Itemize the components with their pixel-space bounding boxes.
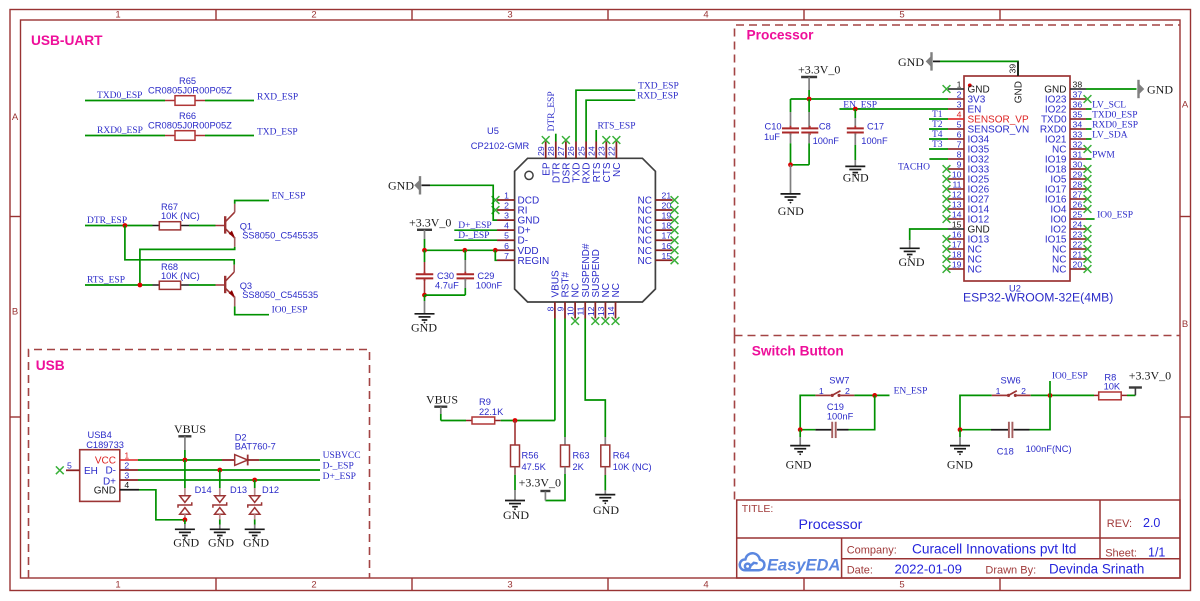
pin 10 U2 left IO25 xyxy=(948,178,964,180)
svg-text:30: 30 xyxy=(1073,160,1083,170)
svg-text:26: 26 xyxy=(566,146,576,156)
wire IO0 label stub xyxy=(1049,381,1051,395)
svg-text:1: 1 xyxy=(115,580,120,591)
svg-text:LV_SDA: LV_SDA xyxy=(1092,131,1128,141)
pin 22 U5 top xyxy=(615,142,617,159)
svg-text:NC: NC xyxy=(611,283,622,297)
svg-text:SW6: SW6 xyxy=(1001,375,1021,385)
svg-text:C17: C17 xyxy=(867,122,884,132)
pin 30 U2 right IO18 xyxy=(1070,168,1086,170)
svg-text:27: 27 xyxy=(1073,190,1083,200)
svg-text:1: 1 xyxy=(504,191,509,201)
svg-text:R9: R9 xyxy=(479,397,491,407)
svg-text:RXD0_ESP: RXD0_ESP xyxy=(1092,121,1138,131)
svg-text:CR0805J0R00P05Z: CR0805J0R00P05Z xyxy=(148,120,232,131)
pin 21 U5 right xyxy=(655,199,672,201)
pin 19 U2 left NC xyxy=(948,268,964,270)
svg-text:39: 39 xyxy=(1008,64,1018,74)
pin 4 U2 left SENSOR_VP xyxy=(948,118,964,120)
svg-text:IO0_ESP: IO0_ESP xyxy=(1052,371,1088,381)
svg-text:C8: C8 xyxy=(819,122,831,132)
svg-text:100nF: 100nF xyxy=(476,281,503,291)
svg-text:29: 29 xyxy=(536,146,546,156)
svg-text:TITLE:: TITLE: xyxy=(742,503,774,515)
svg-text:DTR_ESP: DTR_ESP xyxy=(87,216,127,226)
wire xyxy=(259,459,320,461)
pin 3 stub xyxy=(120,479,138,481)
svg-text:14: 14 xyxy=(606,306,616,316)
svg-text:NC: NC xyxy=(638,256,652,267)
svg-text:USB4: USB4 xyxy=(88,430,112,440)
pin 29 U5 top xyxy=(545,142,547,159)
svg-text:Date:: Date: xyxy=(847,565,873,577)
pin 37 U2 right IO23 xyxy=(1070,98,1086,100)
wire xyxy=(1086,218,1095,220)
pin 11 U5 bottom xyxy=(584,302,586,319)
pin 13 U2 left IO14 xyxy=(948,208,964,210)
wire RST# to R63 xyxy=(564,319,566,446)
svg-text:C189733: C189733 xyxy=(86,440,124,450)
svg-text:100nF(NC): 100nF(NC) xyxy=(1026,444,1072,454)
junction xyxy=(872,393,877,398)
svg-text:LV_SCL: LV_SCL xyxy=(1092,101,1126,111)
svg-text:17: 17 xyxy=(662,231,672,241)
svg-text:2: 2 xyxy=(124,460,129,470)
svg-text:4: 4 xyxy=(124,480,129,490)
svg-text:15: 15 xyxy=(952,220,962,230)
svg-text:19: 19 xyxy=(662,211,672,221)
pin 33 U2 right IO21 xyxy=(1070,138,1086,140)
wire Q3 emitter IO0_ESP xyxy=(235,306,269,314)
svg-text:18: 18 xyxy=(952,250,962,260)
svg-text:RTS_ESP: RTS_ESP xyxy=(598,122,636,132)
svg-text:DTR_ESP: DTR_ESP xyxy=(547,91,557,131)
svg-text:34: 34 xyxy=(1073,120,1083,130)
svg-text:24: 24 xyxy=(1073,220,1083,230)
svg-text:1/1: 1/1 xyxy=(1148,546,1165,560)
svg-text:6: 6 xyxy=(504,241,509,251)
wire xyxy=(441,420,466,422)
svg-text:2: 2 xyxy=(957,90,962,100)
resistor R63 xyxy=(561,445,570,467)
svg-text:GND: GND xyxy=(411,321,437,335)
chip U2 ESP32-WROOM-32E body xyxy=(964,76,1070,281)
svg-text:C19: C19 xyxy=(827,402,844,412)
svg-text:10: 10 xyxy=(952,170,962,180)
svg-text:USB-UART: USB-UART xyxy=(31,33,103,48)
wire xyxy=(1086,108,1092,110)
power flag +3.3V_0 at R8 xyxy=(1129,388,1142,396)
svg-text:GND: GND xyxy=(899,255,925,269)
pin 18 U2 left NC xyxy=(948,258,964,260)
svg-text:RTS_ESP: RTS_ESP xyxy=(87,276,125,286)
no-connect pin1 xyxy=(492,196,500,204)
svg-text:36: 36 xyxy=(1073,100,1083,110)
svg-text:3: 3 xyxy=(124,470,129,480)
pin 22 U2 right NC xyxy=(1070,248,1086,250)
svg-text:4: 4 xyxy=(703,580,708,591)
svg-text:16: 16 xyxy=(662,241,672,251)
svg-text:35: 35 xyxy=(1073,110,1083,120)
svg-text:1: 1 xyxy=(124,450,129,460)
pin 34 U2 right RXD0 xyxy=(1070,128,1086,130)
svg-text:+3.3V_0: +3.3V_0 xyxy=(409,216,451,230)
wire RTS stub xyxy=(595,130,597,142)
svg-text:Switch Button: Switch Button xyxy=(752,344,844,359)
wire xyxy=(929,148,948,150)
op-amp U5 body CP2102-GMR xyxy=(515,158,656,302)
svg-text:1: 1 xyxy=(819,386,824,396)
svg-text:23: 23 xyxy=(597,146,607,156)
capacitor C19 xyxy=(815,422,848,438)
svg-text:100nF: 100nF xyxy=(861,136,888,146)
pin 27 U5 top xyxy=(565,142,567,159)
svg-text:14: 14 xyxy=(952,210,962,220)
junction xyxy=(798,427,803,432)
capacitor C17 xyxy=(847,109,864,166)
wire SW7 right side xyxy=(849,395,875,429)
wire xyxy=(425,294,466,296)
svg-text:10K (NC): 10K (NC) xyxy=(161,271,200,281)
pin 11 U2 left IO26 xyxy=(948,188,964,190)
pin 39 U2 top stub xyxy=(1017,61,1019,76)
wire xyxy=(854,394,889,396)
wire xyxy=(929,118,948,120)
svg-text:16: 16 xyxy=(952,230,962,240)
no-connect pin29 xyxy=(542,136,550,144)
pin 20 U2 right NC xyxy=(1070,268,1086,270)
svg-text:11: 11 xyxy=(576,306,586,315)
svg-text:13: 13 xyxy=(596,306,606,316)
svg-text:21: 21 xyxy=(1073,250,1083,260)
svg-text:VBUS: VBUS xyxy=(174,422,206,436)
svg-text:GND: GND xyxy=(173,536,199,550)
svg-text:1: 1 xyxy=(957,80,962,90)
wire xyxy=(189,225,216,227)
svg-text:+3.3V_0: +3.3V_0 xyxy=(519,476,561,490)
EasyEDA logo xyxy=(740,553,765,570)
svg-text:GND: GND xyxy=(843,171,869,185)
resistor R67 xyxy=(153,222,190,230)
svg-text:VBUS: VBUS xyxy=(426,393,458,407)
ground flag GND pin38 xyxy=(1086,80,1144,98)
wire DTR label stub xyxy=(555,134,557,142)
pin 29 U2 right IO5 xyxy=(1070,178,1086,180)
svg-text:GND: GND xyxy=(243,536,269,550)
svg-text:GND: GND xyxy=(786,457,812,471)
capacitor C30 xyxy=(416,250,434,295)
junction xyxy=(183,517,188,522)
ground xyxy=(505,500,525,502)
ground xyxy=(415,295,435,323)
svg-text:26: 26 xyxy=(1073,200,1083,210)
svg-text:A: A xyxy=(1182,100,1189,111)
junction xyxy=(958,427,963,432)
wire D+ net xyxy=(138,479,320,481)
svg-text:25: 25 xyxy=(1073,210,1083,220)
ground xyxy=(790,430,810,455)
dashed box USB section xyxy=(29,350,370,579)
svg-text:TXD_ESP: TXD_ESP xyxy=(257,128,298,138)
svg-text:1: 1 xyxy=(115,10,120,21)
svg-text:R63: R63 xyxy=(573,451,590,461)
wire xyxy=(85,100,165,102)
no-connect bottom pin xyxy=(602,317,610,325)
wire REGIN xyxy=(495,250,497,260)
junction xyxy=(123,223,128,228)
svg-text:19: 19 xyxy=(952,260,962,270)
svg-text:Curacell Innovations pvt ltd: Curacell Innovations pvt ltd xyxy=(912,542,1076,557)
svg-text:C29: C29 xyxy=(477,271,494,281)
pin 27 U2 right IO16 xyxy=(1070,198,1086,200)
svg-text:D13: D13 xyxy=(230,485,247,495)
pin 19 U5 right xyxy=(655,219,672,221)
ground xyxy=(595,467,615,504)
wire xyxy=(1127,394,1135,396)
wire xyxy=(1086,118,1092,120)
svg-text:D12: D12 xyxy=(262,485,279,495)
wire xyxy=(454,239,497,241)
diode D14 xyxy=(178,460,192,520)
svg-text:28: 28 xyxy=(1073,180,1083,190)
capacitor C18 xyxy=(991,422,1030,438)
wire xyxy=(929,128,948,130)
svg-text:3: 3 xyxy=(504,211,509,221)
pin 8 U5 bottom xyxy=(554,302,556,319)
svg-text:1uF: 1uF xyxy=(764,132,780,142)
no-connect bottom pin xyxy=(591,317,599,325)
svg-text:GND: GND xyxy=(1013,81,1024,103)
pin 18 U5 right xyxy=(655,229,672,231)
pin 28 U5 top xyxy=(555,142,557,159)
junction xyxy=(513,418,518,423)
diode D13 xyxy=(213,470,227,529)
pin 4 stub xyxy=(120,489,139,491)
pin 14 U2 left IO12 xyxy=(948,218,964,220)
svg-text:GND: GND xyxy=(94,486,116,497)
svg-text:Drawn By:: Drawn By: xyxy=(985,565,1036,577)
resistor R68 xyxy=(153,281,190,289)
pin 14 U5 bottom xyxy=(615,302,617,319)
svg-text:USB: USB xyxy=(36,358,65,373)
junction xyxy=(462,248,467,253)
dashed box Switch Button section xyxy=(734,336,736,501)
svg-text:2: 2 xyxy=(845,386,850,396)
pin 2 U2 left 3V3 xyxy=(948,98,964,100)
transistor Q1 xyxy=(216,204,235,247)
resistor R8 xyxy=(1094,392,1127,400)
svg-text:SS8050_C545535: SS8050_C545535 xyxy=(242,230,318,240)
svg-text:9: 9 xyxy=(957,160,962,170)
svg-text:CR0805J0R00P05Z: CR0805J0R00P05Z xyxy=(148,85,232,96)
svg-text:12: 12 xyxy=(952,190,962,200)
svg-text:17: 17 xyxy=(952,240,962,250)
wire xyxy=(501,420,555,422)
svg-text:9: 9 xyxy=(556,306,566,311)
svg-text:6: 6 xyxy=(957,130,962,140)
wire xyxy=(205,135,254,137)
svg-text:NC: NC xyxy=(1052,265,1066,276)
svg-text:+3.3V_0: +3.3V_0 xyxy=(1129,369,1171,383)
ground xyxy=(210,528,230,530)
svg-text:4: 4 xyxy=(504,221,509,231)
svg-text:RXD_ESP: RXD_ESP xyxy=(637,92,678,102)
title block xyxy=(737,500,1180,578)
pin 1 U5 xyxy=(497,199,515,201)
resistor R9 xyxy=(466,417,501,424)
svg-text:EN_ESP: EN_ESP xyxy=(894,386,928,396)
wire IO32 xyxy=(929,158,948,160)
svg-text:5: 5 xyxy=(67,461,72,471)
pin 36 U2 right IO22 xyxy=(1070,108,1086,110)
svg-text:IO0_ESP: IO0_ESP xyxy=(1097,211,1133,221)
junction xyxy=(788,162,793,167)
svg-text:GND: GND xyxy=(208,536,234,550)
pin 26 U2 right IO4 xyxy=(1070,208,1086,210)
pin 38 U2 right GND xyxy=(1070,88,1086,90)
svg-text:37: 37 xyxy=(1073,90,1083,100)
svg-text:12: 12 xyxy=(586,306,596,316)
wire EN net xyxy=(840,108,949,110)
svg-text:100nF: 100nF xyxy=(827,412,854,422)
ground xyxy=(245,528,265,530)
svg-text:47.5K: 47.5K xyxy=(522,462,547,472)
pin 32 U2 right NC xyxy=(1070,148,1086,150)
svg-text:10: 10 xyxy=(566,306,576,316)
pin 7 U5 xyxy=(497,259,515,261)
ground xyxy=(781,165,801,204)
svg-text:D-: D- xyxy=(105,466,116,477)
pin 5 stub xyxy=(66,469,80,471)
wire xyxy=(791,164,810,166)
svg-text:4: 4 xyxy=(957,110,962,120)
resistor R66 xyxy=(165,131,205,141)
wire D- net xyxy=(138,469,320,471)
junction xyxy=(217,468,222,473)
svg-text:8: 8 xyxy=(957,150,962,160)
svg-text:Devinda Srinath: Devinda Srinath xyxy=(1049,562,1144,577)
junction xyxy=(422,248,427,253)
pin 9 U5 bottom xyxy=(564,302,566,319)
no-connect bottom pin xyxy=(571,317,579,325)
svg-text:C30: C30 xyxy=(437,271,454,281)
svg-text:20: 20 xyxy=(1073,260,1083,270)
no-connect pin22 xyxy=(613,136,621,144)
wire SW6 right side xyxy=(1030,395,1051,429)
pin 21 U2 right NC xyxy=(1070,258,1086,260)
diode D2 xyxy=(222,455,259,466)
wire R63 to +3.3V xyxy=(545,467,565,501)
svg-text:GND: GND xyxy=(898,55,924,69)
pin 25 U2 right IO0 xyxy=(1070,218,1086,220)
no-connect bottom pin xyxy=(612,317,620,325)
svg-text:2: 2 xyxy=(504,201,509,211)
wire GND to pin3 xyxy=(430,185,497,220)
wire xyxy=(1031,394,1094,396)
pin 17 U2 left NC xyxy=(948,248,964,250)
dashed box Processor section xyxy=(735,25,1181,336)
svg-text:22: 22 xyxy=(607,146,617,156)
svg-text:38: 38 xyxy=(1073,80,1083,90)
wire xyxy=(1086,128,1092,130)
svg-text:NC: NC xyxy=(968,265,982,276)
pin 26 U5 top xyxy=(575,142,577,159)
svg-text:C18: C18 xyxy=(997,446,1014,456)
pin 13 U5 bottom xyxy=(604,302,606,319)
wire xyxy=(189,284,216,286)
pin 31 U2 right IO19 xyxy=(1070,158,1086,160)
svg-text:R56: R56 xyxy=(522,451,539,461)
svg-text:20: 20 xyxy=(662,201,672,211)
pin 1 stub xyxy=(120,459,138,461)
svg-text:29: 29 xyxy=(1073,170,1083,180)
svg-text:31: 31 xyxy=(1073,150,1083,160)
svg-text:GND: GND xyxy=(593,503,619,517)
svg-text:RXD_ESP: RXD_ESP xyxy=(257,93,298,103)
svg-text:3: 3 xyxy=(507,10,512,21)
svg-text:10K: 10K xyxy=(1104,382,1121,392)
pin 35 U2 right TXD0 xyxy=(1070,118,1086,120)
pin 3 U2 left EN xyxy=(948,108,964,110)
wire GND to pin39 xyxy=(940,61,1018,76)
svg-text:3: 3 xyxy=(957,100,962,110)
junction xyxy=(183,458,188,463)
svg-text:2: 2 xyxy=(1021,386,1026,396)
pin 10 U5 bottom xyxy=(574,302,576,319)
resistor R65 xyxy=(165,96,205,106)
svg-text:GND: GND xyxy=(503,508,529,522)
pin 7 U2 left IO35 xyxy=(948,148,964,150)
svg-text:B: B xyxy=(1182,319,1188,330)
svg-text:18: 18 xyxy=(662,221,672,231)
svg-text:NC: NC xyxy=(612,163,623,177)
wire SUSPEND# to R64 xyxy=(585,319,605,446)
svg-text:7: 7 xyxy=(957,140,962,150)
svg-text:ESP32-WROOM-32E(4MB): ESP32-WROOM-32E(4MB) xyxy=(963,290,1113,304)
pin 12 U2 left IO27 xyxy=(948,198,964,200)
svg-text:+3.3V_0: +3.3V_0 xyxy=(798,63,840,77)
svg-text:28: 28 xyxy=(546,146,556,156)
wire SW6 loop xyxy=(960,395,992,429)
wire TXD net xyxy=(576,90,635,141)
svg-text:32: 32 xyxy=(1073,140,1083,150)
svg-text:PWM: PWM xyxy=(1092,151,1115,161)
svg-text:TXD_ESP: TXD_ESP xyxy=(638,82,679,92)
svg-text:D14: D14 xyxy=(195,485,212,495)
svg-text:IO0_ESP: IO0_ESP xyxy=(272,306,308,316)
svg-text:22: 22 xyxy=(1073,240,1083,250)
svg-text:B: B xyxy=(12,307,18,318)
pin 20 U5 right xyxy=(655,209,672,211)
svg-text:2K: 2K xyxy=(573,462,585,472)
svg-text:EH: EH xyxy=(84,466,98,477)
svg-text:EasyEDA: EasyEDA xyxy=(767,556,840,574)
svg-text:23: 23 xyxy=(1073,230,1083,240)
svg-text:15: 15 xyxy=(662,251,672,261)
junction xyxy=(493,248,498,253)
svg-text:U5: U5 xyxy=(487,126,499,136)
capacitor C29 xyxy=(457,250,475,295)
svg-text:Sheet:: Sheet: xyxy=(1105,548,1137,560)
pin 5 U5 xyxy=(497,239,515,241)
pin 8 U2 left IO32 xyxy=(948,158,964,160)
svg-text:22.1K: 22.1K xyxy=(479,407,504,417)
resistor R64 xyxy=(601,445,610,467)
pin 23 U5 top xyxy=(605,142,607,159)
capacitor C8 xyxy=(801,99,818,165)
ground xyxy=(845,165,865,167)
wire xyxy=(1086,158,1092,160)
